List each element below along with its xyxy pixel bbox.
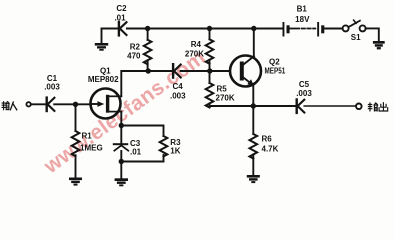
ground (below R6) (247, 175, 260, 183)
svg-text:1MEG: 1MEG (80, 144, 103, 153)
capacitor C5 (297, 100, 305, 113)
svg-text:.003: .003 (170, 92, 186, 101)
wire node D to R3 top (121, 126, 163, 137)
label S1 (351, 33, 361, 42)
label C4 .003 (170, 82, 186, 100)
svg-text:Q2: Q2 (269, 58, 280, 67)
wire C1 to node A (54, 103, 90, 105)
resistor R6 (250, 106, 258, 175)
wire node E to R3 bottom (121, 155, 163, 162)
svg-text:R5: R5 (217, 85, 228, 94)
label Q1 HEP802 (88, 66, 119, 84)
wire Q1 drain up to node B (121, 71, 148, 96)
svg-text:R4: R4 (191, 40, 202, 49)
node E junction (C3/R3 bottom) (119, 159, 124, 164)
svg-text:.003: .003 (296, 89, 312, 98)
svg-text:18V: 18V (295, 15, 310, 24)
capacitor C4 (173, 64, 181, 77)
capacitor C2 (119, 22, 127, 35)
wire input to C1 (31, 103, 46, 105)
svg-text:R1: R1 (82, 132, 93, 141)
wire Q1 source down to node D (120, 112, 122, 126)
svg-text:R6: R6 (262, 134, 273, 143)
wire Q2 emitter down (252, 86, 254, 106)
battery B1 (283, 22, 325, 37)
resistor R1 (72, 104, 80, 177)
junction collector on rail (251, 26, 256, 31)
label Q2 HEP51 (265, 58, 286, 76)
label R4 270K (185, 40, 204, 58)
output line from R5 bottom (210, 105, 296, 107)
svg-text:.003: .003 (44, 83, 60, 92)
svg-text:C2: C2 (116, 4, 127, 13)
capacitor C3 (113, 126, 129, 178)
svg-text:270K: 270K (185, 49, 204, 58)
svg-text:.01: .01 (130, 148, 142, 157)
label R2 470 (127, 42, 141, 60)
ground (rail bypass) (95, 43, 108, 51)
label R1 1MEG (80, 132, 103, 153)
label C1 .003 (44, 74, 60, 92)
svg-text:4.7K: 4.7K (262, 145, 279, 154)
resistor R4 (206, 29, 214, 72)
output terminal (356, 104, 362, 110)
label R3 1K (170, 138, 181, 156)
svg-text:C5: C5 (299, 80, 310, 89)
transistor Q1 (JFET MEP802) (91, 89, 122, 119)
label R6 4.7K (262, 134, 279, 153)
junction R4 top on rail (207, 26, 212, 31)
label B1 18V (295, 4, 310, 24)
svg-text:470: 470 (127, 51, 141, 60)
resistor R3 (160, 136, 168, 156)
resistor R5 (206, 71, 214, 107)
power rail (102, 28, 118, 30)
wire node B to C4 (148, 70, 172, 72)
wire C5 to output terminal (304, 105, 356, 107)
junction R2 top on rail (145, 26, 150, 31)
svg-text:1K: 1K (170, 147, 180, 156)
svg-text:C4: C4 (173, 82, 184, 91)
ground (below C3) (115, 178, 128, 186)
junction emitter/output (251, 103, 256, 108)
svg-text:S1: S1 (351, 33, 361, 42)
input terminal (26, 102, 30, 106)
label R5 270K (216, 85, 235, 103)
wire Q2 collector to rail (253, 29, 255, 57)
capacitor C1 (47, 98, 55, 111)
label C2 .01 (114, 4, 127, 22)
svg-text:MEP802: MEP802 (88, 75, 119, 84)
node C junction (207, 68, 212, 73)
ground stub (left of C2) (101, 29, 103, 43)
watermark www.elecfans.com (39, 46, 210, 179)
node D junction (119, 123, 124, 128)
svg-text:.01: .01 (114, 13, 126, 22)
wire switch to right ground (366, 28, 379, 40)
switch S1 (343, 20, 366, 31)
label 输入 (input) (2, 102, 17, 110)
label C5 .003 (296, 80, 312, 98)
wire battery to switch (324, 28, 342, 30)
ground (below R1) (69, 178, 82, 186)
label C3 .01 (130, 139, 142, 157)
ground (right of S1) (373, 41, 385, 49)
label 输出 (output) (368, 103, 387, 111)
node A junction (73, 102, 78, 107)
resistor R2 (144, 29, 152, 72)
svg-text:270K: 270K (216, 94, 235, 103)
svg-text:MEP51: MEP51 (265, 67, 286, 76)
svg-text:R2: R2 (130, 42, 141, 51)
transistor Q2 (MEP51) (230, 56, 261, 87)
svg-text:B1: B1 (297, 4, 308, 13)
node B junction (R2 bottom) (146, 68, 151, 73)
wire C4 to node C (R4/R5/base) (181, 70, 230, 72)
